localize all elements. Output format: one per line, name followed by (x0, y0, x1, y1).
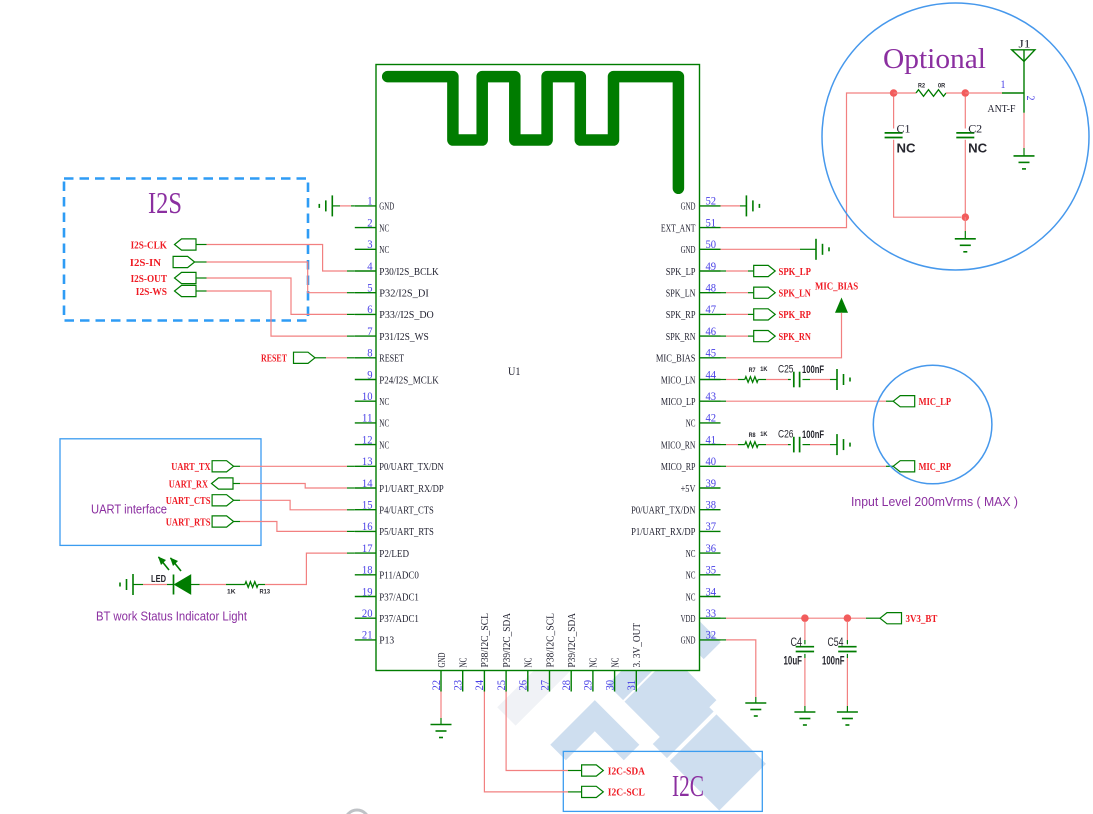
wire LED to resistor R13 (191, 584, 200, 586)
svg-text:I2S-CLK: I2S-CLK (131, 240, 168, 251)
svg-text:P1/UART_RX/DP: P1/UART_RX/DP (631, 527, 696, 538)
svg-text:NC: NC (589, 658, 600, 668)
connector SPK_RP (754, 309, 776, 320)
wire pin 41 to R8 (721, 444, 727, 446)
svg-text:26: 26 (518, 680, 530, 691)
connector SPK_RN (754, 331, 776, 342)
svg-text:UART_RTS: UART_RTS (166, 517, 211, 528)
svg-text:I2C: I2C (672, 768, 704, 803)
pin 17 P2/LED (355, 552, 376, 554)
svg-text:100nF: 100nF (822, 654, 845, 668)
pin 5 P32/I2S_DI (355, 292, 376, 294)
svg-text:28: 28 (561, 680, 573, 691)
svg-text:36: 36 (706, 543, 717, 555)
svg-text:33: 33 (706, 608, 717, 620)
svg-text:34: 34 (706, 586, 717, 598)
pin 48 SPK_LN (700, 292, 721, 294)
svg-text:UART_CTS: UART_CTS (166, 496, 211, 507)
wire pin 25 to I2C-SDA (506, 692, 568, 771)
capacitor C4 10uF (804, 621, 806, 640)
svg-text:52: 52 (706, 196, 717, 208)
wire pin 48 to SPK_LN (721, 292, 727, 294)
pin 45 MIC_BIAS (700, 357, 721, 359)
svg-text:43: 43 (706, 391, 717, 403)
svg-text:39: 39 (706, 478, 717, 490)
svg-text:MIC_BIAS: MIC_BIAS (815, 282, 858, 293)
svg-text:RESET: RESET (261, 354, 287, 365)
svg-text:P24/I2S_MCLK: P24/I2S_MCLK (379, 375, 439, 386)
svg-text:P1/UART_RX/DP: P1/UART_RX/DP (379, 484, 444, 495)
node ANT junction (962, 89, 970, 97)
capacitor C26 100nF (793, 437, 795, 453)
connector MIC_RP (893, 461, 915, 472)
svg-text:35: 35 (706, 565, 717, 577)
svg-text:P39/I2C_SDA: P39/I2C_SDA (567, 613, 578, 668)
svg-text:C2: C2 (968, 122, 982, 136)
UART interface box (60, 439, 261, 546)
connector UART_RTS (212, 516, 234, 527)
pin 4 P30/I2S_BCLK (355, 270, 376, 272)
svg-text:8: 8 (367, 348, 373, 360)
svg-text:VDD: VDD (681, 614, 696, 625)
wire junction to ground (964, 217, 966, 231)
pin 14 P1/UART_RX/DP (355, 487, 376, 489)
svg-text:6: 6 (367, 304, 373, 316)
svg-text:P2/LED: P2/LED (379, 549, 409, 560)
ground after C26 (836, 434, 838, 455)
svg-text:J1: J1 (1019, 37, 1031, 51)
wire pin 43 to MIC_LP (721, 400, 727, 402)
wire EXT_ANT pin 51 to antenna network (721, 93, 891, 228)
pin 33 VDD (700, 617, 721, 619)
wire UART_TX to pin 13 (234, 465, 240, 467)
svg-text:P31/I2S_WS: P31/I2S_WS (379, 332, 429, 343)
svg-text:50: 50 (706, 239, 717, 251)
svg-text:RESET: RESET (379, 354, 404, 365)
resistor R7 1K (745, 377, 758, 383)
svg-text:15: 15 (362, 500, 373, 512)
svg-text:19: 19 (362, 586, 373, 598)
connector I2S-IN (173, 256, 195, 267)
svg-text:47: 47 (706, 304, 717, 316)
svg-text:NC: NC (897, 142, 916, 156)
Optional circle (822, 3, 1089, 270)
pin 1 GND (355, 205, 376, 207)
connector MIC_LP (893, 396, 915, 407)
svg-text:GND: GND (681, 636, 696, 647)
svg-text:BT work Status Indicator Ligh: BT work Status Indicator Light (96, 610, 247, 624)
svg-text:MIC_BIAS: MIC_BIAS (656, 354, 696, 365)
svg-text:18: 18 (362, 565, 373, 577)
wire C26 to ground (803, 444, 811, 446)
connector UART_CTS (212, 495, 234, 506)
svg-text:4: 4 (367, 261, 373, 273)
pin 20 P37/ADC1 (355, 617, 376, 619)
capacitor C54 100nF (846, 621, 848, 640)
wire pin 22 to ground (440, 692, 442, 719)
svg-text:P37/ADC1: P37/ADC1 (379, 592, 419, 603)
svg-text:P33//I2S_DO: P33//I2S_DO (379, 310, 434, 321)
wire node to antenna J1 (965, 92, 1002, 94)
pin 21 P13 (355, 639, 376, 641)
pin 50 GND (700, 248, 721, 250)
svg-text:31: 31 (626, 680, 638, 691)
wire I2S-OUT to pin 6 (196, 277, 207, 279)
connector I2C-SDA (582, 765, 604, 776)
pin 27 P38/I2C_SCL (549, 671, 551, 692)
svg-text:9: 9 (367, 369, 373, 381)
pin 43 MICO_LP (700, 400, 721, 402)
svg-text:SPK_RN: SPK_RN (779, 332, 812, 343)
svg-text:11: 11 (362, 413, 373, 425)
pin 39 +5V (700, 487, 721, 489)
svg-text:MICO_RP: MICO_RP (661, 462, 696, 473)
svg-text:100nF: 100nF (802, 429, 824, 441)
resistor R13 (245, 582, 258, 588)
pin 7 P31/I2S_WS (355, 335, 376, 337)
svg-text:NC: NC (379, 440, 389, 451)
IC U1 body (376, 65, 700, 671)
connector I2S-WS (175, 285, 197, 296)
svg-text:MIC_RP: MIC_RP (919, 462, 952, 473)
connector RESET (294, 352, 316, 363)
svg-text:3: 3 (367, 239, 373, 251)
svg-text:MICO_RN: MICO_RN (661, 440, 696, 451)
connector UART_TX (212, 461, 234, 472)
svg-text:SPK_LN: SPK_LN (666, 289, 696, 300)
wire R8 to C26 (758, 444, 766, 446)
svg-text:48: 48 (706, 283, 717, 295)
svg-text:24: 24 (474, 680, 486, 691)
pin 46 SPK_RN (700, 335, 721, 337)
pin 24 P38/I2C_SCL (483, 671, 485, 692)
junction at C4 (801, 614, 809, 622)
svg-text:P5/UART_RTS: P5/UART_RTS (379, 527, 434, 538)
svg-text:27: 27 (539, 680, 551, 691)
svg-text:I2S-IN: I2S-IN (130, 258, 162, 269)
svg-text:NC: NC (524, 658, 535, 668)
pin 41 MICO_RN (700, 444, 721, 446)
svg-text:NC: NC (686, 592, 696, 603)
svg-text:P0/UART_TX/DN: P0/UART_TX/DN (379, 462, 444, 473)
svg-text:GND: GND (681, 245, 696, 256)
pin 34 NC (700, 596, 721, 598)
wire UART_RX to pin 14 (233, 483, 240, 485)
svg-text:12: 12 (362, 434, 373, 446)
svg-text:P4/UART_CTS: P4/UART_CTS (379, 506, 434, 517)
wire I2S-WS to pin 7 (196, 290, 207, 292)
svg-text:Input Level 200mVrms ( MAX ): Input Level 200mVrms ( MAX ) (851, 494, 1018, 509)
wire pin 49 to SPK_LP (721, 270, 727, 272)
pin 42 NC (700, 422, 721, 424)
pin 9 P24/I2S_MCLK (355, 379, 376, 381)
capacitor C25 100nF (793, 372, 795, 388)
svg-text:10uF: 10uF (784, 654, 803, 668)
svg-text:2: 2 (367, 217, 373, 229)
ground at C4 (794, 711, 815, 713)
connector I2S-CLK (175, 239, 197, 250)
connector SPK_LP (754, 265, 776, 276)
svg-text:UART interface: UART interface (91, 503, 167, 517)
wire pin 40 to MIC_RP (721, 465, 727, 467)
svg-text:49: 49 (706, 261, 717, 273)
junction at C54 (844, 614, 852, 622)
wire pin 33 VDD to 3V3_BT (721, 617, 727, 619)
svg-text:C4: C4 (791, 635, 803, 649)
svg-text:P39/I2C_SDA: P39/I2C_SDA (502, 613, 513, 668)
svg-text:P30/I2S_BCLK: P30/I2S_BCLK (379, 267, 439, 278)
I2S interface dashed box (64, 179, 308, 321)
svg-text:5: 5 (367, 283, 373, 295)
svg-text:NC: NC (379, 223, 389, 234)
svg-text:29: 29 (583, 680, 595, 691)
pin 11 NC (355, 422, 376, 424)
svg-text:C54: C54 (828, 635, 844, 649)
wire RESET to pin 8 (315, 357, 326, 359)
pin 22 GND (440, 671, 442, 692)
svg-text:32: 32 (706, 630, 717, 642)
pin 49 SPK_LP (700, 270, 721, 272)
svg-text:SPK_LP: SPK_LP (666, 267, 696, 278)
svg-text:ANT-F: ANT-F (988, 104, 1016, 115)
wire pin 45 to MIC_BIAS arrow (726, 313, 842, 358)
svg-text:I2C-SDA: I2C-SDA (608, 766, 645, 777)
svg-text:UART_RX: UART_RX (169, 479, 209, 490)
svg-text:R7: R7 (749, 367, 756, 374)
svg-text:22: 22 (431, 680, 443, 691)
I2C box (563, 751, 762, 811)
antenna meander trace on U1 (388, 77, 679, 189)
svg-text:P32/I2S_DI: P32/I2S_DI (379, 289, 429, 300)
svg-text:I2S-WS: I2S-WS (136, 287, 167, 298)
pin 2 NC (355, 227, 376, 229)
svg-text:SPK_LN: SPK_LN (779, 289, 812, 300)
pin 44 MICO_LN (700, 379, 721, 381)
svg-text:GND: GND (379, 202, 394, 213)
pin 25 P39/I2C_SDA (505, 671, 507, 692)
pin 18 P11/ADC0 (355, 574, 376, 576)
pin 31 3. 3V_OUT (635, 671, 637, 692)
svg-text:46: 46 (706, 326, 717, 338)
wire C25 to ground (803, 379, 811, 381)
pin 16 P5/UART_RTS (355, 530, 376, 532)
pin 12 NC (355, 444, 376, 446)
svg-text:C26: C26 (778, 429, 794, 441)
svg-text:16: 16 (362, 521, 373, 533)
svg-text:C25: C25 (778, 363, 794, 375)
capacitor C2 NC (964, 97, 966, 129)
svg-text:R8: R8 (749, 432, 756, 439)
svg-text:SPK_RP: SPK_RP (779, 310, 812, 321)
svg-text:1K: 1K (760, 366, 767, 373)
pin 32 GND (700, 639, 721, 641)
svg-text:45: 45 (706, 348, 717, 360)
svg-text:14: 14 (362, 478, 373, 490)
wire R7 to C25 (758, 379, 766, 381)
svg-text:I2C-SCL: I2C-SCL (608, 788, 645, 799)
pin 28 P39/I2C_SDA (570, 671, 572, 692)
svg-text:41: 41 (706, 434, 717, 446)
ground at pin 1 (331, 195, 333, 216)
ground after C25 (836, 369, 838, 390)
ground at pin 22 (431, 724, 452, 726)
svg-text:NC: NC (459, 658, 470, 668)
wire C2 to bottom rail (964, 140, 966, 217)
pin 40 MICO_RP (700, 465, 721, 467)
svg-text:3. 3V_OUT: 3. 3V_OUT (632, 622, 643, 667)
pin 51 EXT_ANT (700, 227, 721, 229)
pin 6 P33//I2S_DO (355, 313, 376, 315)
connector SPK_LN (754, 287, 776, 298)
svg-text:51: 51 (706, 217, 717, 229)
svg-text:LED: LED (151, 574, 166, 585)
pin 13 P0/UART_TX/DN (355, 465, 376, 467)
svg-text:P0/UART_TX/DN: P0/UART_TX/DN (631, 506, 696, 517)
svg-text:GND: GND (681, 202, 696, 213)
svg-text:NC: NC (379, 245, 389, 256)
svg-text:42: 42 (706, 413, 717, 425)
svg-text:EXT_ANT: EXT_ANT (661, 223, 696, 234)
svg-text:3V3_BT: 3V3_BT (906, 614, 938, 625)
svg-text:1K: 1K (760, 431, 767, 438)
svg-text:NC: NC (686, 419, 696, 430)
svg-text:44: 44 (706, 369, 717, 381)
wire UART_CTS to pin 15 (234, 499, 240, 501)
svg-text:17: 17 (362, 543, 373, 555)
svg-text:NC: NC (610, 658, 621, 668)
pin 10 NC (355, 400, 376, 402)
wire pin 32 GND to ground (721, 639, 727, 641)
wire pin 46 to SPK_RN (721, 335, 727, 337)
ground at pin 50 (721, 248, 801, 250)
svg-text:+5V: +5V (681, 484, 696, 495)
wire J1 to ground (1023, 113, 1025, 148)
svg-text:NC: NC (686, 571, 696, 582)
svg-text:7: 7 (367, 326, 373, 338)
svg-text:10: 10 (362, 391, 373, 403)
svg-text:SPK_LP: SPK_LP (779, 267, 812, 278)
ground at pin 52 (721, 205, 741, 207)
junction bottom rail (962, 213, 970, 221)
svg-text:21: 21 (362, 630, 373, 642)
svg-text:C1: C1 (897, 122, 911, 136)
svg-text:R2: R2 (918, 83, 925, 90)
svg-text:P11/ADC0: P11/ADC0 (379, 571, 419, 582)
pin 15 P4/UART_CTS (355, 509, 376, 511)
svg-text:I2S: I2S (148, 185, 182, 220)
svg-text:P38/I2C_SCL: P38/I2C_SCL (480, 613, 491, 668)
svg-text:Optional: Optional (883, 43, 986, 75)
ground in Optional circle (955, 238, 976, 240)
wire pin 44 to R7 (721, 379, 727, 381)
connector I2S-OUT (175, 272, 197, 283)
wire I2S-CLK to pin 4 (196, 244, 207, 246)
pin 30 NC (614, 671, 616, 692)
wire UART_RTS to pin 16 (234, 521, 240, 523)
svg-text:30: 30 (604, 680, 616, 691)
pin 8 RESET (355, 357, 376, 359)
ground at C54 (837, 711, 858, 713)
svg-text:NC: NC (379, 419, 389, 430)
svg-text:40: 40 (706, 456, 717, 468)
svg-text:1: 1 (1001, 79, 1006, 91)
capacitor C1 NC (893, 97, 895, 129)
svg-text:P13: P13 (379, 636, 394, 647)
connector I2C-SCL (582, 786, 604, 797)
svg-text:23: 23 (453, 680, 465, 691)
ground at pin 32 (745, 702, 766, 704)
resistor R8 1K (745, 442, 758, 448)
connector UART_RX (212, 478, 234, 489)
svg-text:0R: 0R (938, 83, 945, 90)
LED D1 (173, 575, 175, 595)
pin 37 P1/UART_RX/DP (700, 530, 721, 532)
svg-text:NC: NC (686, 549, 696, 560)
connector 3V3_BT (880, 613, 902, 624)
svg-text:2: 2 (1024, 96, 1036, 101)
pin 36 NC (700, 552, 721, 554)
svg-text:GND: GND (437, 652, 448, 667)
svg-text:MICO_LP: MICO_LP (661, 397, 696, 408)
svg-text:NC: NC (968, 142, 987, 156)
pin 23 NC (462, 671, 464, 692)
wire R13 to pin 17 (258, 584, 265, 586)
wire pin 24 to I2C-SCL (484, 692, 568, 792)
svg-text:20: 20 (362, 608, 373, 620)
svg-text:SPK_RN: SPK_RN (666, 332, 696, 343)
resistor R2 0R (894, 92, 916, 94)
pin 35 NC (700, 574, 721, 576)
pin 26 NC (527, 671, 529, 692)
svg-text:1: 1 (367, 196, 373, 208)
svg-text:1K: 1K (227, 589, 236, 596)
svg-text:MIC_LP: MIC_LP (919, 397, 952, 408)
svg-text:NC: NC (379, 397, 389, 408)
wire pin 47 to SPK_RP (721, 313, 727, 315)
svg-text:U1: U1 (508, 364, 521, 378)
svg-text:37: 37 (706, 521, 717, 533)
svg-text:P37/ADC1: P37/ADC1 (379, 614, 419, 625)
wire C4 to ground (804, 654, 806, 658)
pin 47 SPK_RP (700, 313, 721, 315)
svg-text:UART_TX: UART_TX (171, 462, 211, 473)
microphone input circle (873, 365, 992, 484)
wire C1 to bottom rail (894, 140, 961, 217)
ground at LED (132, 574, 134, 595)
svg-text:13: 13 (362, 456, 373, 468)
wire I2S-IN to pin 5 (195, 261, 207, 263)
svg-text:SPK_RP: SPK_RP (666, 310, 696, 321)
svg-text:MICO_LN: MICO_LN (661, 375, 696, 386)
svg-text:38: 38 (706, 500, 717, 512)
svg-text:P38/I2C_SCL: P38/I2C_SCL (545, 613, 556, 668)
svg-text:I2S-OUT: I2S-OUT (131, 274, 167, 285)
svg-text:R13: R13 (260, 589, 271, 596)
svg-text:25: 25 (496, 680, 508, 691)
ground under J1 (1014, 155, 1035, 157)
node EXT_ANT junction (890, 89, 898, 97)
svg-text:100nF: 100nF (802, 364, 824, 376)
pin 29 NC (592, 671, 594, 692)
pin 19 P37/ADC1 (355, 596, 376, 598)
pin 38 P0/UART_TX/DN (700, 509, 721, 511)
pin 3 NC (355, 248, 376, 250)
pin 52 GND (700, 205, 721, 207)
wire C54 to ground (846, 654, 848, 658)
